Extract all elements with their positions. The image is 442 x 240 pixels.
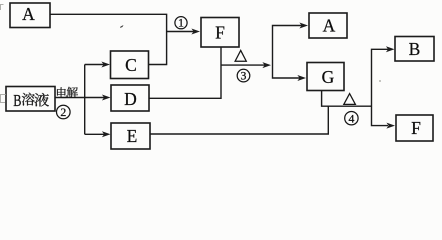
svg-text:D: D xyxy=(124,89,137,109)
svg-text:2: 2 xyxy=(60,105,66,119)
svg-text:F: F xyxy=(411,118,421,138)
svg-text:B: B xyxy=(409,39,421,59)
svg-text:A: A xyxy=(22,4,35,24)
svg-text:F: F xyxy=(215,23,225,43)
svg-text:4: 4 xyxy=(348,111,354,125)
svg-text:3: 3 xyxy=(241,69,247,83)
svg-text:A: A xyxy=(323,16,336,36)
svg-text:C: C xyxy=(125,55,137,75)
svg-text:G: G xyxy=(322,67,335,87)
svg-text:1: 1 xyxy=(178,16,184,30)
svg-text:B: B xyxy=(13,91,21,110)
svg-text:E: E xyxy=(127,126,138,146)
